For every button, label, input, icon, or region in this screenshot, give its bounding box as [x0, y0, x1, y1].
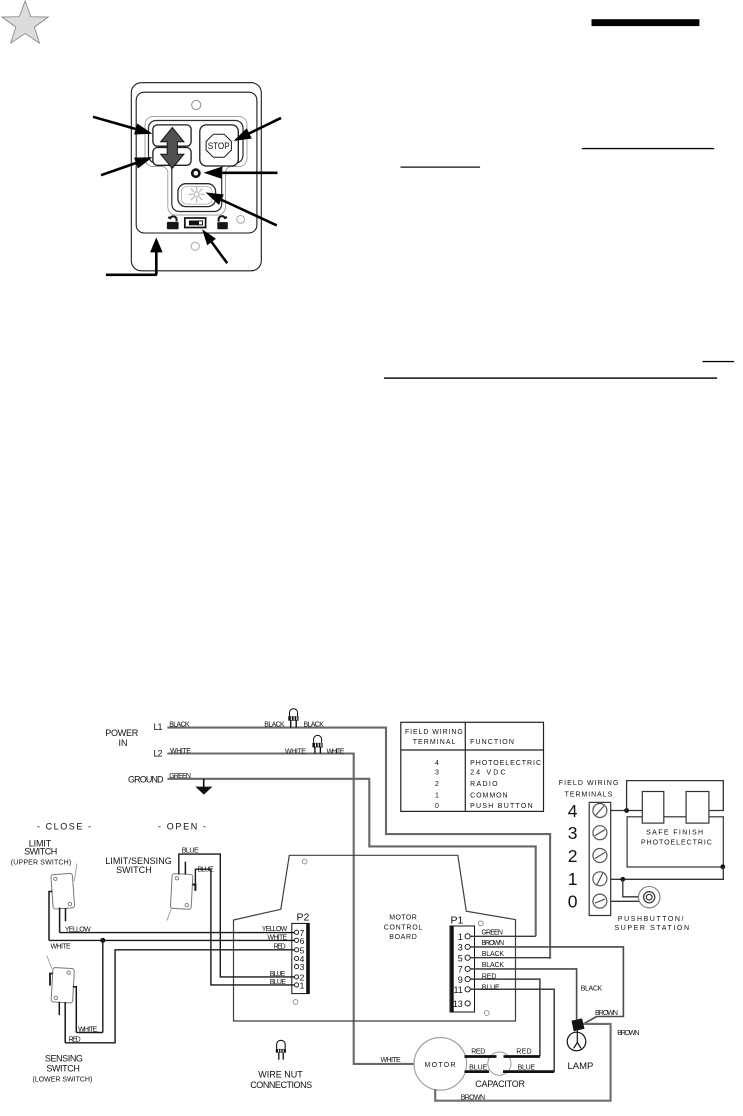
wire junction to pushbutton [623, 879, 640, 897]
svg-text:GROUND: GROUND [128, 775, 164, 785]
board hole top-left [302, 859, 307, 864]
wire L1 run [167, 728, 550, 959]
left open padlock icon [167, 216, 179, 229]
svg-text:COMMON: COMMON [470, 792, 508, 799]
wire GROUND run [167, 779, 535, 937]
wire blue capacitor right [503, 1070, 554, 1073]
svg-text:BROWN: BROWN [595, 1010, 618, 1017]
wire P1 pin9 red to capacitor [470, 979, 540, 1056]
lamp socket cap [572, 1018, 585, 1031]
arrow to LED [204, 167, 278, 179]
svg-text:13: 13 [453, 999, 463, 1009]
P1 pin 1 [465, 934, 470, 939]
P2 pin 7 [295, 930, 299, 934]
star icon top-left [2, 1, 48, 43]
LED indicator [192, 170, 199, 177]
junction dot terminal1 [620, 877, 625, 882]
capacitor C1 [488, 1052, 511, 1075]
svg-text:WIRE NUT: WIRE NUT [258, 1070, 303, 1080]
svg-text:SWITCH: SWITCH [46, 1063, 80, 1073]
svg-text:GREEN: GREEN [169, 773, 191, 780]
wire terminal4 to photoeye [611, 810, 643, 812]
svg-text:BLUE: BLUE [482, 984, 500, 991]
sensing switch side lead bracket [50, 974, 53, 986]
svg-text:WHITE: WHITE [327, 749, 345, 756]
svg-text:24 VDC: 24 VDC [470, 770, 505, 777]
svg-text:TERMINAL: TERMINAL [413, 739, 456, 746]
svg-text:BLUE: BLUE [198, 867, 214, 874]
pushbutton center [646, 894, 652, 900]
svg-text:STOP: STOP [208, 141, 230, 152]
svg-text:RED: RED [516, 1049, 532, 1056]
middle switch top stub [184, 862, 186, 875]
svg-text:5: 5 [458, 954, 463, 964]
svg-text:CAPACITOR: CAPACITOR [475, 1079, 525, 1089]
svg-text:FIELD WIRING: FIELD WIRING [559, 780, 619, 787]
svg-text:2: 2 [435, 781, 439, 788]
lock slider switch [185, 218, 206, 228]
wire blue motor to capacitor [465, 1070, 490, 1073]
wire red to P2 pin5 [65, 950, 294, 1043]
terminal screw 0 [593, 894, 607, 908]
svg-text:1: 1 [435, 792, 439, 799]
svg-text:LAMP: LAMP [568, 1061, 594, 1072]
board hole bottom-right [484, 1011, 489, 1016]
svg-text:FIELD WIRING: FIELD WIRING [405, 729, 463, 736]
board hole top-right [478, 921, 483, 926]
arrow to faceplate bottom [150, 237, 163, 274]
wire red capacitor right [504, 1055, 540, 1058]
arrow tail line bottom [106, 274, 157, 277]
wire L2 run [167, 754, 414, 1064]
board hole bottom-left [293, 1000, 298, 1005]
svg-text:4: 4 [568, 801, 578, 821]
svg-text:RED: RED [482, 974, 497, 981]
underline A [582, 148, 714, 149]
wire yellow to P2 pin7 [60, 932, 295, 934]
faceplate bottom screw hole [191, 242, 199, 250]
P1 pin 5 [465, 955, 470, 960]
button cluster outer contour [145, 116, 247, 215]
down button [153, 148, 191, 166]
svg-text:IN: IN [119, 738, 128, 748]
connector P2 [292, 923, 310, 993]
arrow to light button [206, 192, 278, 226]
P1 pin 3 [465, 944, 470, 949]
svg-text:3: 3 [458, 943, 463, 953]
light button [178, 184, 216, 207]
wire photoeye loop [627, 781, 724, 811]
P2 pin 1 [295, 983, 299, 987]
svg-text:BLUE: BLUE [518, 1064, 536, 1071]
faceplate side hole [237, 216, 245, 224]
svg-text:L1: L1 [154, 722, 163, 732]
P2 pin 5 [295, 948, 299, 952]
wire nut on L1 [288, 709, 298, 728]
light button inner contour [181, 186, 212, 204]
svg-text:BROWN: BROWN [461, 1094, 485, 1101]
wire P1 pin5 black [470, 957, 550, 959]
svg-text:YELLOW: YELLOW [262, 926, 288, 933]
junction dot white [100, 938, 105, 943]
field wiring table [401, 722, 544, 811]
wire white to P2 pin6 [49, 939, 294, 941]
svg-text:BLUE: BLUE [469, 1065, 488, 1072]
middle switch lever [167, 907, 172, 921]
photo eye left [642, 792, 664, 824]
pushbutton outer ring [639, 887, 660, 908]
svg-text:BLACK: BLACK [482, 962, 505, 969]
up/down double arrow glyph [161, 128, 184, 169]
wire terminal0 to pushbutton [611, 900, 641, 902]
svg-text:3: 3 [568, 823, 578, 843]
wall control faceplate [136, 92, 257, 233]
svg-text:POWER: POWER [105, 728, 139, 738]
svg-text:WHITE: WHITE [51, 944, 72, 951]
wire blue1 to P2 pin2 [179, 854, 295, 977]
wire blue2 to P2 pin1 [195, 869, 294, 985]
upper limit switch lever [74, 864, 77, 882]
svg-text:3: 3 [435, 770, 439, 777]
svg-text:WHITE: WHITE [285, 749, 306, 756]
sensing switch body [51, 967, 74, 1003]
svg-text:BROWN: BROWN [617, 1030, 639, 1037]
svg-text:MOTOR: MOTOR [389, 914, 417, 921]
P2 pin 3 [295, 965, 299, 969]
svg-text:YELLOW: YELLOW [65, 926, 91, 933]
svg-text:0: 0 [568, 891, 578, 911]
svg-text:9: 9 [458, 975, 463, 985]
button cluster inner bezel [149, 121, 244, 212]
terminal screw 3 [593, 826, 607, 840]
sensing switch right lead white [73, 987, 77, 1033]
sensing switch lever [47, 956, 52, 969]
wire P1 pin3 brown to lamp [470, 947, 623, 1024]
svg-text:BLUE: BLUE [270, 971, 286, 978]
wire nut on L2 [312, 735, 322, 753]
svg-text:0: 0 [435, 803, 439, 810]
svg-text:(UPPER SWITCH): (UPPER SWITCH) [11, 859, 71, 866]
P1 pin 9 [465, 977, 470, 982]
terminal screw 2 [593, 849, 607, 863]
arrow to up button [93, 116, 153, 135]
svg-text:CONNECTIONS: CONNECTIONS [250, 1080, 312, 1090]
svg-text:6: 6 [300, 936, 305, 946]
wire white sensing to junction [76, 1032, 103, 1034]
terminal strip [589, 802, 611, 915]
junction dot terminal4 [624, 808, 629, 813]
wire red motor to capacitor [465, 1055, 497, 1058]
svg-text:CONTROL: CONTROL [384, 925, 423, 932]
svg-text:3: 3 [300, 962, 305, 972]
svg-text:BLACK: BLACK [482, 951, 505, 958]
svg-text:BOARD: BOARD [389, 934, 417, 941]
terminal screw 4 [593, 804, 607, 818]
P2 pin 4 [295, 956, 299, 960]
underline C [703, 361, 735, 362]
connector P1 [450, 926, 475, 1012]
wire P1 pin1 green [470, 935, 536, 937]
svg-text:PHOTOELECTRIC: PHOTOELECTRIC [641, 840, 712, 847]
svg-text:WHITE: WHITE [170, 748, 191, 755]
svg-text:RADIO: RADIO [470, 781, 498, 788]
junction dot container corner [720, 864, 725, 869]
svg-text:RED: RED [69, 1036, 81, 1043]
svg-text:RED: RED [471, 1049, 485, 1056]
wire nut symbol bottom [276, 1040, 286, 1059]
svg-text:1: 1 [300, 981, 305, 991]
ground symbol [195, 779, 212, 795]
middle switch side lead bracket [193, 885, 196, 891]
sensing switch bottom stub [58, 1002, 60, 1015]
svg-text:BLACK: BLACK [581, 986, 603, 993]
terminal screw 1 [593, 872, 607, 886]
motor M1 [414, 1038, 467, 1091]
motor control board outline [234, 855, 516, 1021]
svg-text:RED: RED [274, 944, 286, 951]
svg-text:WHITE: WHITE [381, 1057, 402, 1064]
svg-text:SUPER STATION: SUPER STATION [615, 925, 690, 932]
svg-text:P1: P1 [451, 914, 464, 926]
svg-text:BLACK: BLACK [304, 721, 325, 728]
svg-text:WHITE: WHITE [78, 1026, 98, 1033]
upper limit switch body [51, 873, 75, 909]
svg-text:L2: L2 [154, 749, 163, 759]
svg-text:1: 1 [568, 869, 578, 889]
sensing switch bottom lead red [64, 1002, 66, 1043]
svg-text:7: 7 [458, 965, 463, 975]
photoelectric container box [627, 817, 723, 867]
svg-text:(LOWER SWITCH): (LOWER SWITCH) [33, 1077, 93, 1084]
underline D [384, 377, 717, 378]
upper switch side lead [49, 892, 53, 941]
P1 pin 7 [465, 966, 470, 971]
svg-text:SWITCH: SWITCH [24, 847, 57, 857]
right open padlock icon [217, 216, 228, 229]
wire P1 pin7 black to lamp [470, 969, 576, 1020]
lamp bulb [567, 1032, 586, 1051]
svg-text:MOTOR: MOTOR [425, 1062, 456, 1069]
P1 pin 11 [465, 987, 470, 992]
svg-text:BLACK: BLACK [264, 721, 285, 728]
wall control outer plate [131, 83, 261, 271]
svg-text:SENSING: SENSING [45, 1054, 83, 1064]
svg-text:1: 1 [458, 932, 463, 942]
svg-text:WHITE: WHITE [267, 934, 287, 941]
stop button [200, 125, 239, 166]
lamp filament [574, 1031, 581, 1049]
svg-text:4: 4 [435, 760, 439, 767]
upper switch bottom stub [65, 908, 67, 921]
arrow to stop button [234, 117, 282, 141]
svg-text:GREEN: GREEN [481, 930, 503, 937]
svg-text:11: 11 [453, 985, 462, 995]
pushbutton middle ring [644, 892, 655, 903]
P1 pin 13 [465, 1001, 470, 1006]
middle limit/sensing switch body [170, 873, 192, 909]
up button [153, 125, 191, 146]
svg-text:PHOTOELECTRIC: PHOTOELECTRIC [470, 760, 541, 767]
black header bar top-right [592, 19, 700, 26]
photo eye right [686, 792, 709, 824]
underline B [401, 167, 481, 168]
wire terminal1 to container [611, 867, 724, 880]
svg-text:SAFE FINISH: SAFE FINISH [646, 830, 703, 837]
svg-text:BLACK: BLACK [169, 721, 190, 728]
svg-text:BLUE: BLUE [182, 848, 199, 855]
svg-text:BLUE: BLUE [270, 979, 287, 986]
faceplate top screw hole [192, 100, 201, 109]
svg-text:TERMINALS: TERMINALS [565, 792, 613, 799]
svg-text:SWITCH: SWITCH [116, 865, 152, 875]
wire junction down to sensing switch [102, 940, 104, 1032]
wire P1 pin11 blue to capacitor [470, 989, 554, 1071]
svg-text:P2: P2 [297, 911, 310, 923]
svg-text:PUSH BUTTON: PUSH BUTTON [470, 803, 533, 810]
stop octagon [206, 134, 231, 157]
svg-text:BROWN: BROWN [481, 940, 504, 947]
P2 pin 6 [295, 938, 299, 942]
svg-text:2: 2 [568, 846, 578, 866]
P2 pin 2 [295, 975, 299, 979]
upper switch bottom lead yellow [59, 908, 61, 933]
arrow to down button [101, 157, 153, 176]
wire brown bottom run [435, 1024, 610, 1101]
light bulb icon [188, 186, 204, 202]
svg-text:FUNCTION: FUNCTION [470, 739, 514, 746]
arrow to lock slider [202, 229, 228, 264]
